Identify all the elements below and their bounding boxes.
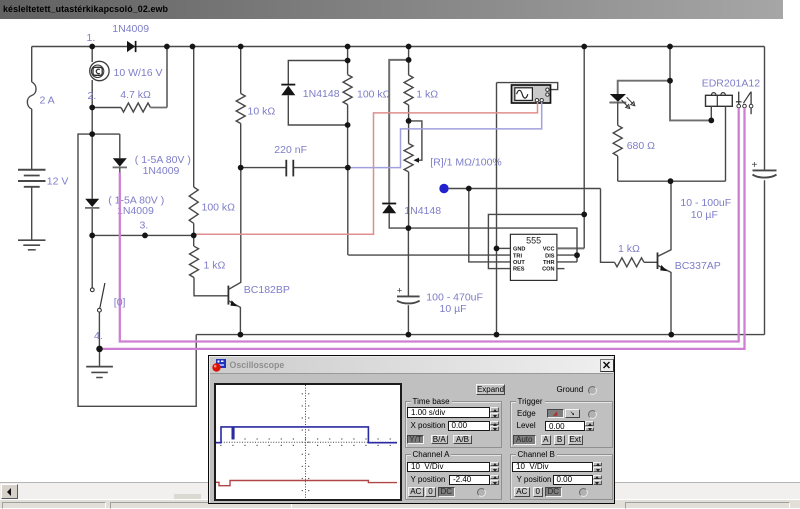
ground (battery): [18, 240, 46, 250]
wire right rail column: [764, 47, 766, 335]
label 1N4148 (second): [404, 205, 441, 217]
svg-text:680 Ω: 680 Ω: [627, 140, 655, 152]
resistor R7 1k (mid column): [404, 47, 413, 121]
lamp X1 10W/16V: [90, 61, 109, 80]
label 100 - 470uF / 10 uF: [426, 291, 483, 315]
wire 100k-mid column: [347, 47, 349, 256]
oscilloscope close button: [600, 359, 614, 373]
diode D1 1N4009 (top rail): [127, 41, 136, 52]
junction dots lamp column: [89, 105, 95, 137]
oscilloscope instrument window: [208, 355, 615, 504]
svg-text:10 kΩ: 10 kΩ: [248, 105, 276, 117]
svg-text:3.: 3.: [140, 220, 149, 232]
main EWB window titlebar: [0, 0, 783, 19]
capacitor C1 220nF: [241, 160, 348, 177]
555 pin labels VCC DIS THR CON: [542, 247, 555, 273]
transistor Q1 BC182BP: [228, 168, 240, 335]
svg-text:220 nF: 220 nF: [274, 144, 307, 156]
label 10 kOhm: [248, 105, 276, 117]
diode D2 (1-5A 80V) 1N4009 upper: [92, 134, 127, 172]
wire 555 TRI pin net: [348, 254, 510, 256]
svg-text:RES: RES: [513, 267, 525, 273]
junction dots ground bus: [238, 332, 675, 338]
label 10 - 100uF / 10 uF: [680, 197, 731, 221]
label 1N4148 (first): [303, 88, 340, 100]
svg-text:CON: CON: [542, 267, 554, 273]
wire 555 RES loop: [488, 214, 584, 268]
junction dots mid column: [238, 58, 351, 171]
wire scope ground top link: [497, 83, 558, 90]
diode D4 1N4148 (first): [281, 61, 347, 126]
label 1N4009: [112, 23, 149, 35]
resistor R4 1k (BC182 base): [190, 235, 229, 295]
resistor R2 4.7k (horizontal): [92, 47, 167, 113]
potentiometer R8 [R]/1M/100%: [404, 121, 422, 228]
label BC337AP: [675, 260, 721, 272]
wire +12V top rail: [32, 46, 765, 48]
svg-text:GND: GND: [513, 247, 525, 253]
label 2 A: [40, 95, 55, 107]
status bar: [0, 499, 800, 509]
svg-text:1N4009: 1N4009: [112, 23, 149, 35]
wire 555 GND pin to ground column: [497, 247, 511, 249]
label (1-5A 80V) 1N4009 lower: [108, 194, 164, 217]
svg-text:THR: THR: [543, 260, 555, 266]
svg-text:100 kΩ: 100 kΩ: [202, 202, 236, 214]
wire lower-left loop: [78, 134, 196, 406]
node 1. label: [87, 32, 96, 44]
resistor R10 680: [613, 103, 622, 182]
svg-text:10 µF: 10 µF: [440, 303, 467, 315]
wire gray jumper to D5: [389, 60, 408, 203]
resistor R6 100k (mid): [343, 61, 352, 105]
svg-text:BC182BP: BC182BP: [244, 284, 290, 296]
555 pin labels GND TRI OUT RES: [513, 247, 525, 273]
resistor R5 10k: [236, 47, 245, 168]
wire relay contact 1 (pink) to D2: [120, 108, 739, 342]
label [R]/1 MOhm/100%: [430, 156, 501, 168]
svg-text:DIS: DIS: [545, 253, 555, 259]
svg-text:100 - 470uF: 100 - 470uF: [426, 291, 483, 303]
node 2. label: [88, 90, 97, 102]
switch S1 [0]: [90, 235, 105, 346]
label 4.7 kOhm: [120, 89, 151, 101]
scope trace channel B (red): [216, 480, 397, 485]
wire ground bus (bottom): [196, 334, 764, 336]
svg-text:2.: 2.: [88, 90, 97, 102]
scope trace channel A (blue): [216, 426, 397, 442]
svg-text:10 - 100uF: 10 - 100uF: [680, 197, 731, 209]
junction dots LED/relay: [667, 78, 714, 184]
junction dots on +12V rail: [89, 44, 673, 50]
wire 555 output net: [449, 189, 615, 263]
wire 555 DIS/THR net: [408, 228, 577, 262]
ground (switch): [86, 349, 113, 378]
svg-text:+: +: [752, 160, 758, 171]
junction dots 1k/pot column: [406, 57, 412, 231]
relay K1 EDR201A12 coil: [706, 93, 733, 182]
svg-text:1 kΩ: 1 kΩ: [618, 243, 640, 255]
IC U1 555 timer box: [510, 234, 557, 280]
label 10 W/16 V: [114, 67, 163, 79]
fuse F1 2A: [27, 82, 36, 109]
scope graticule: [216, 385, 398, 499]
svg-text:EDR201A12: EDR201A12: [702, 77, 761, 89]
battery V1 12V: [18, 170, 46, 187]
label [0]: [114, 297, 126, 309]
label 220 nF: [274, 144, 307, 156]
svg-text:VCC: VCC: [543, 247, 555, 253]
svg-text:2 A: 2 A: [40, 95, 55, 107]
svg-text:[R]/1 MΩ/100%: [R]/1 MΩ/100%: [430, 156, 501, 168]
wire relay contact 2 (pink) to switch ground: [100, 108, 745, 349]
svg-text:1.: 1.: [87, 32, 96, 44]
capacitor C2 100-470uF electrolytic: [397, 228, 420, 335]
svg-text:10 µF: 10 µF: [691, 209, 718, 221]
horizontal scrollbar: [0, 482, 800, 499]
LED D6: [609, 94, 635, 109]
label 1 kOhm (mid): [416, 88, 438, 100]
svg-text:+: +: [397, 286, 403, 297]
diode D5 1N4148 (second): [382, 204, 408, 229]
junction dots node3 bus: [89, 233, 196, 239]
junction dots 555 area: [466, 186, 587, 259]
oscilloscope screen: [214, 383, 402, 501]
oscilloscope window icon: [212, 358, 227, 373]
wire lamp column / diode chain column: [91, 47, 93, 236]
wire left supply column (fuse/battery leads): [31, 47, 33, 240]
node A (blue connector): [439, 184, 448, 193]
capacitor C4 10-100uF (right rail electrolytic): [752, 160, 777, 177]
wire channel A (red): [195, 102, 538, 234]
wire relay/680 bottom net: [618, 180, 726, 182]
svg-text:[0]: [0]: [114, 297, 126, 309]
svg-text:1 kΩ: 1 kΩ: [204, 259, 226, 271]
label EDR201A12: [702, 77, 761, 89]
svg-text:TRI: TRI: [513, 253, 522, 259]
wire scope ground column: [496, 83, 498, 335]
svg-text:10 W/16 V: 10 W/16 V: [114, 67, 163, 79]
wire node3 bus: [92, 234, 194, 236]
svg-text:555: 555: [526, 236, 541, 246]
node 3. label: [140, 220, 149, 232]
svg-text:12 V: 12 V: [47, 176, 69, 188]
svg-text:1N4009: 1N4009: [117, 205, 154, 217]
resistor R9 1k (BC337 base): [615, 258, 658, 267]
svg-text:1N4148: 1N4148: [404, 205, 441, 217]
label BC182BP: [244, 284, 290, 296]
svg-text:BC337AP: BC337AP: [675, 260, 721, 272]
wire 555 VCC pin net: [557, 47, 584, 249]
svg-text:1N4009: 1N4009: [143, 165, 180, 177]
label 680 Ohm: [627, 140, 655, 152]
node 4. label: [94, 330, 103, 342]
wire LED branch from rail: [618, 47, 712, 121]
svg-text:4.: 4.: [94, 330, 103, 342]
label 100 kOhm (mid): [357, 88, 391, 100]
label 1 kOhm (BC337): [618, 243, 640, 255]
label (1-5A 80V) 1N4009 upper: [135, 154, 191, 177]
label 12 V: [47, 176, 69, 188]
oscilloscope mini icon XSC1: [512, 85, 551, 103]
wire 555 CON stub: [557, 268, 565, 270]
svg-text:4.7 kΩ: 4.7 kΩ: [120, 89, 151, 101]
resistor R3 100k (left column): [189, 47, 198, 236]
label 100 kOhm (left): [202, 202, 236, 214]
junction dot switch-ground: [96, 346, 103, 353]
svg-text:100 kΩ: 100 kΩ: [357, 88, 391, 100]
diode D3 (1-5A 80V) 1N4009 lower: [85, 199, 99, 208]
label 1 kOhm (left): [204, 259, 226, 271]
svg-text:OUT: OUT: [513, 260, 525, 266]
transistor Q2 BC337AP: [658, 181, 672, 334]
oscilloscope window titlebar: [210, 357, 613, 374]
relay K1 contacts: [736, 92, 753, 115]
svg-text:1N4148: 1N4148: [303, 88, 340, 100]
svg-text:1 kΩ: 1 kΩ: [416, 88, 438, 100]
wire channel B (lavender): [348, 102, 542, 168]
